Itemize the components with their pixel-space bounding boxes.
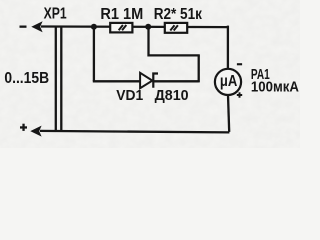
wire jog horizontal xyxy=(149,54,200,56)
connector XP1 pin line 1 xyxy=(55,27,57,132)
svg-text:R2* 51к: R2* 51к xyxy=(154,6,202,23)
svg-text:Д810: Д810 xyxy=(155,87,189,104)
svg-text:0...15В: 0...15В xyxy=(4,70,49,87)
diode VD1 cathode bar with zener tick xyxy=(153,74,158,88)
svg-text:VD1: VD1 xyxy=(116,87,143,104)
svg-text:R1 1М: R1 1М xyxy=(100,6,143,23)
connector XP1 pin line 2 xyxy=(60,27,62,132)
wire top horizontal xyxy=(41,25,228,28)
svg-text:ХР1: ХР1 xyxy=(44,6,67,23)
diode VD1 zener triangle xyxy=(140,73,152,88)
meter minus mark xyxy=(237,63,242,65)
node junction 1 xyxy=(91,24,97,30)
wire jog up to junction2 xyxy=(147,27,149,57)
node junction 2 xyxy=(145,24,151,30)
resistor R1 power marks xyxy=(119,25,127,30)
arrow top-left terminal xyxy=(31,21,42,32)
resistor R2 power marks xyxy=(170,25,178,30)
wire diode branch to anode xyxy=(93,80,140,82)
svg-text:100мкА: 100мкА xyxy=(251,80,299,96)
resistor R2 xyxy=(165,23,187,33)
wire meter bottom to bottom wire xyxy=(228,95,229,132)
wire right vertical from top wire to meter xyxy=(227,26,229,69)
wire right riser of diode loop xyxy=(198,55,200,82)
meter plus mark xyxy=(237,94,242,96)
wire junction1 down to diode branch xyxy=(93,27,95,82)
resistor R1 xyxy=(110,23,132,33)
plus terminal sign bottom-left xyxy=(20,126,27,128)
wire diode cathode to right riser xyxy=(154,80,199,82)
svg-text:μА: μА xyxy=(220,73,237,90)
arrow bottom-left terminal xyxy=(30,126,41,137)
meter PA1 circle xyxy=(215,69,241,95)
wire bottom horizontal xyxy=(40,131,229,133)
minus terminal sign top-left xyxy=(20,26,27,28)
